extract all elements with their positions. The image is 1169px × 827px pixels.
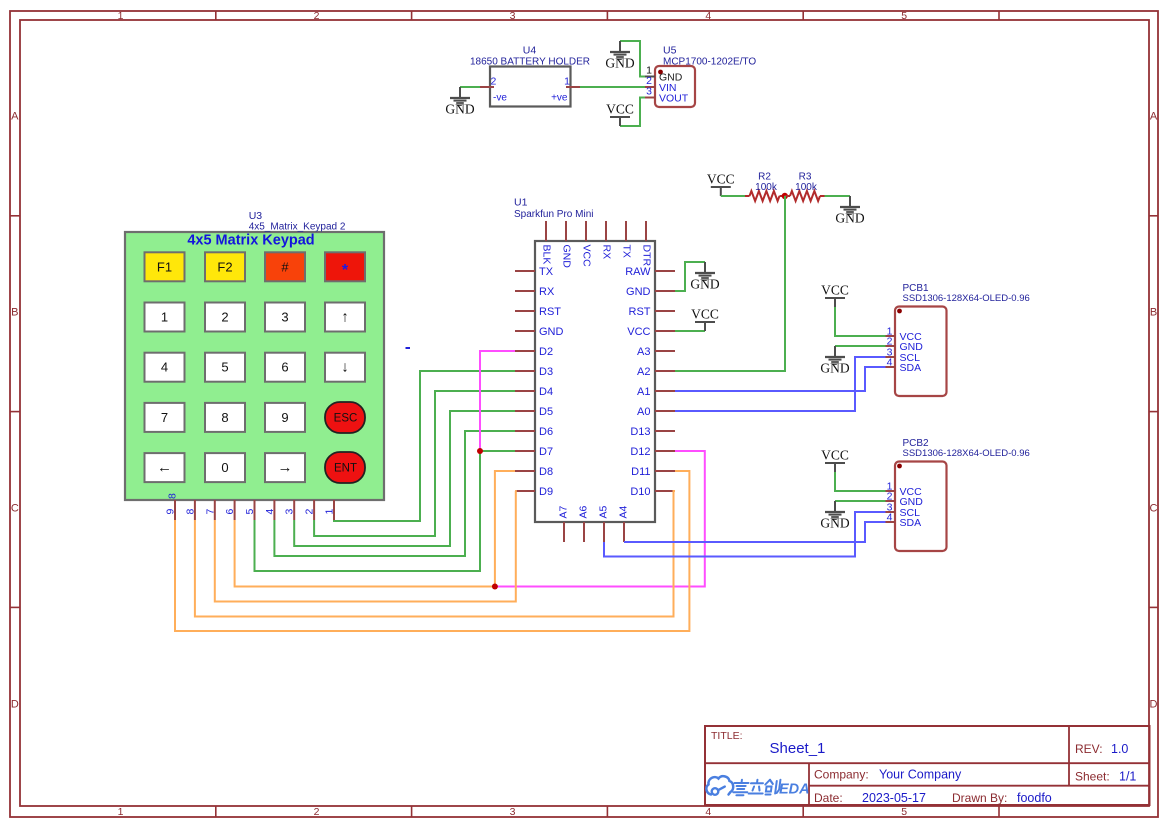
svg-text:2: 2 — [304, 509, 316, 515]
svg-text:GND: GND — [539, 326, 564, 338]
wire VCC to PCB1 pin1 — [835, 307, 886, 336]
svg-text:D4: D4 — [539, 386, 553, 398]
U1 right pin A0 — [655, 410, 675, 412]
U1 left pin D6 — [515, 430, 535, 432]
svg-text:5: 5 — [244, 509, 256, 515]
svg-text:GND: GND — [820, 516, 849, 531]
keypad pin 3 — [293, 500, 295, 520]
svg-text:MCP1700-1202E/TO: MCP1700-1202E/TO — [663, 57, 756, 68]
svg-text:9: 9 — [165, 509, 177, 515]
U1 left pin TX — [515, 270, 535, 272]
OLED PCB2 SSD1306 body — [895, 438, 1030, 551]
U1 left pin RX — [515, 290, 535, 292]
svg-text:4: 4 — [264, 509, 276, 515]
keypad button left-arrow — [145, 453, 185, 482]
svg-text:ESC: ESC — [334, 413, 358, 425]
svg-text:A1: A1 — [637, 386, 650, 398]
U1 bottom pin A6 — [583, 522, 585, 542]
ground GND (U5) — [605, 41, 634, 71]
svg-text:DTR: DTR — [640, 245, 652, 267]
U1 top pin GND — [565, 221, 567, 241]
svg-text:Sheet:: Sheet: — [1075, 770, 1110, 784]
svg-text:D7: D7 — [539, 446, 553, 458]
svg-text:GND: GND — [605, 56, 634, 71]
svg-text:4x5_Matrix_Keypad 2: 4x5_Matrix_Keypad 2 — [249, 221, 346, 232]
U1 top pin BLK — [545, 221, 547, 241]
svg-text:4: 4 — [705, 806, 711, 818]
OLED PCB1 SSD1306 body — [895, 283, 1030, 396]
keypad pin 8 — [194, 500, 196, 520]
svg-text:VCC: VCC — [606, 102, 634, 117]
ground GND (U4) — [445, 87, 474, 117]
keypad pin 6 — [234, 500, 236, 520]
wire U5 GND to ground — [620, 41, 645, 77]
net label dash near D2 wire — [406, 347, 411, 349]
battery holder U4 body — [470, 45, 590, 107]
wire keypad pin3 to U1 D5 (green) — [294, 411, 515, 546]
U1 top pin TX — [625, 221, 627, 241]
svg-text:VCC: VCC — [821, 283, 849, 298]
U1 right pin A3 — [655, 350, 675, 352]
svg-text:U1: U1 — [514, 197, 528, 209]
wire U5 VOUT to VCC — [620, 98, 645, 127]
svg-text:18650 BATTERY HOLDER: 18650 BATTERY HOLDER — [470, 57, 590, 68]
resistor R2 — [745, 191, 785, 201]
svg-text:Company:: Company: — [814, 768, 869, 782]
svg-text:D6: D6 — [539, 426, 553, 438]
wire keypad pin5 to node A (green) — [255, 451, 481, 571]
wire node A to U1 D7 (green) — [480, 450, 515, 452]
keypad button ESC — [325, 402, 365, 433]
U1 top pin VCC — [585, 221, 587, 241]
keypad button 1 — [145, 303, 185, 332]
svg-text:3: 3 — [284, 509, 296, 515]
keypad button F1 — [145, 252, 185, 281]
svg-text:SDA: SDA — [900, 362, 922, 374]
svg-text:U3: U3 — [249, 210, 263, 222]
wire U1 A4 to PCB2 SDA (blue) — [624, 522, 886, 542]
power VCC (PCB2) — [821, 448, 849, 473]
U1 right pin GND — [655, 290, 675, 292]
U1 bottom pin A4 — [623, 522, 625, 542]
svg-text:GND: GND — [560, 245, 572, 269]
keypad button right-arrow — [265, 453, 305, 482]
keypad button 7 — [145, 403, 185, 432]
keypad button 9 — [265, 403, 305, 432]
svg-text:A0: A0 — [637, 406, 650, 418]
svg-text:7: 7 — [161, 410, 168, 425]
svg-text:7: 7 — [204, 509, 216, 515]
EDA logo chinese characters — [733, 780, 781, 796]
svg-text:VCC: VCC — [707, 172, 735, 187]
svg-text:D: D — [11, 699, 19, 711]
svg-text:RX: RX — [539, 286, 555, 298]
svg-text:VCC: VCC — [627, 326, 650, 338]
svg-text:→: → — [278, 459, 293, 476]
U1 left pin GND — [515, 330, 535, 332]
U1 right pin D12 — [655, 450, 675, 452]
keypad button ENT — [325, 452, 365, 483]
svg-text:2: 2 — [221, 310, 228, 325]
svg-text:Sparkfun Pro Mini: Sparkfun Pro Mini — [514, 209, 593, 220]
U1 left pin D9 — [515, 490, 535, 492]
junction node B (D8/D12/keypad6) — [492, 584, 498, 590]
svg-text:TX: TX — [620, 245, 632, 258]
U1 left pin D5 — [515, 410, 535, 412]
svg-text:*: * — [342, 262, 349, 279]
wire U1 D9 to keypad pin7 (orange) — [215, 491, 516, 602]
U1 right pin A1 — [655, 390, 675, 392]
wire U1 A5 to PCB2 SCL (blue) — [604, 512, 886, 557]
svg-text:foodfo: foodfo — [1017, 791, 1052, 805]
PCB1 pin 1 VCC — [886, 335, 896, 337]
svg-text:RST: RST — [629, 306, 651, 318]
wire PCB2 pin2 to ground — [835, 500, 886, 502]
svg-text:D5: D5 — [539, 406, 553, 418]
svg-text:8: 8 — [221, 410, 228, 425]
svg-text:D2: D2 — [539, 346, 553, 358]
ground GND (PCB1) — [820, 346, 849, 376]
keypad button * — [325, 252, 365, 281]
wire VCC to R2 — [721, 195, 745, 197]
U4 pin 1 (+ve) — [566, 86, 580, 88]
keypad pin 9 — [174, 500, 176, 520]
svg-text:D13: D13 — [630, 426, 650, 438]
title block REV — [1075, 742, 1128, 756]
wire U1 A1 to PCB1 SDA (blue) — [675, 367, 886, 391]
wire R3 to ground — [825, 195, 851, 197]
svg-text:Sheet_1: Sheet_1 — [770, 740, 826, 757]
wire keypad pin4 to U1 D6 (green) — [274, 431, 515, 556]
svg-text:U4: U4 — [523, 45, 537, 57]
wire PCB1 pin2 to ground — [835, 345, 886, 347]
svg-text:1: 1 — [118, 806, 124, 818]
wire VCC to PCB2 pin1 — [835, 472, 886, 491]
svg-text:6: 6 — [224, 509, 236, 515]
svg-text:F1: F1 — [157, 259, 172, 274]
svg-text:VCC: VCC — [821, 448, 849, 463]
PCB2 pin 3 SCL — [886, 511, 896, 513]
svg-text:RAW: RAW — [625, 266, 651, 278]
U1 left pin D3 — [515, 370, 535, 372]
svg-text:2: 2 — [314, 10, 320, 22]
svg-text:RX: RX — [600, 245, 612, 260]
svg-text:9: 9 — [281, 410, 288, 425]
U1 right pin A2 — [655, 370, 675, 372]
title block Company — [814, 768, 962, 782]
U1 left pin RST — [515, 310, 535, 312]
svg-text:A2: A2 — [637, 366, 650, 378]
svg-text:D8: D8 — [539, 466, 553, 478]
keypad pin 2 — [313, 500, 315, 520]
PCB1 pin-1 marker dot — [897, 309, 902, 314]
svg-text:B: B — [1150, 307, 1157, 319]
svg-text:C: C — [1150, 503, 1158, 515]
svg-text:3: 3 — [646, 86, 652, 98]
svg-text:↓: ↓ — [341, 359, 349, 376]
svg-text:TITLE:: TITLE: — [711, 730, 743, 742]
keypad U3 4x5_Matrix_Keypad body — [125, 210, 384, 500]
svg-text:A6: A6 — [578, 505, 590, 518]
svg-text:100k: 100k — [795, 182, 818, 193]
PCB1 pin 3 SCL — [886, 356, 896, 358]
svg-text:3: 3 — [281, 310, 288, 325]
svg-text:U5: U5 — [663, 45, 677, 57]
PCB2 pin 1 VCC — [886, 490, 896, 492]
PCB1 pin 2 GND — [886, 345, 896, 347]
U4 pin 2 (-ve) — [480, 86, 494, 88]
svg-text:2: 2 — [491, 76, 497, 88]
svg-text:D3: D3 — [539, 366, 553, 378]
svg-text:Drawn By:: Drawn By: — [952, 791, 1007, 805]
power VCC (R2) — [707, 172, 735, 197]
title block Sheet number — [1075, 770, 1136, 784]
svg-text:GND: GND — [835, 211, 864, 226]
svg-text:1: 1 — [564, 76, 570, 88]
svg-text:A: A — [11, 111, 19, 123]
wire divider junction to U1 A2 — [675, 196, 785, 371]
U1 right pin VCC — [655, 330, 675, 332]
svg-text:D: D — [1150, 699, 1158, 711]
keypad button up-arrow — [325, 303, 365, 332]
U1 left pin D7 — [515, 450, 535, 452]
svg-text:↑: ↑ — [341, 309, 349, 326]
U1 right pin RST — [655, 310, 675, 312]
svg-text:GND: GND — [445, 102, 474, 117]
svg-text:VCC: VCC — [691, 307, 719, 322]
svg-text:SDA: SDA — [900, 517, 922, 529]
keypad button 3 — [265, 303, 305, 332]
svg-text:B: B — [11, 307, 18, 319]
wire keypad pin2 to U1 D4 (green) — [314, 391, 515, 536]
svg-text:D11: D11 — [631, 466, 650, 478]
keypad button # — [265, 252, 305, 281]
svg-text:BLK: BLK — [540, 245, 552, 265]
wire U4 +ve to U5 VIN — [580, 86, 645, 88]
U1 bottom pin A5 — [603, 522, 605, 542]
svg-text:4: 4 — [887, 512, 893, 524]
junction node A (D2/D7/keypad5) — [477, 448, 483, 454]
microcontroller U1 Sparkfun Pro Mini body — [514, 197, 655, 523]
regulator U5 MCP1700-1202E/TO body — [655, 45, 756, 108]
U1 top pin RX — [605, 221, 607, 241]
svg-text:8: 8 — [167, 493, 179, 499]
title block Drawn By — [952, 791, 1052, 805]
svg-text:D9: D9 — [539, 486, 553, 498]
svg-text:←: ← — [157, 459, 172, 476]
svg-text:Your Company: Your Company — [879, 768, 962, 782]
svg-text:4: 4 — [887, 357, 893, 369]
svg-text:-ve: -ve — [493, 93, 507, 104]
PCB2 pin 2 GND — [886, 500, 896, 502]
power VCC (U1) — [691, 307, 719, 332]
ground GND (PCB2) — [820, 501, 849, 531]
keypad pin 5 — [254, 500, 256, 520]
svg-text:5: 5 — [901, 10, 907, 22]
PCB2 pin-1 marker dot — [897, 464, 902, 469]
svg-text:5: 5 — [901, 806, 907, 818]
keypad pin 4 — [273, 500, 275, 520]
U1 right pin D13 — [655, 430, 675, 432]
svg-text:Date:: Date: — [814, 791, 843, 805]
ground GND (U1) — [690, 262, 719, 292]
U1 right pin D10 — [655, 490, 675, 492]
U5 pin 2 VIN — [645, 86, 655, 88]
wire keypad pin6 to node B (orange) — [235, 520, 495, 587]
keypad button 8 — [205, 403, 245, 432]
svg-text:A: A — [1150, 111, 1158, 123]
keypad button 5 — [205, 353, 245, 382]
svg-text:4: 4 — [161, 360, 168, 375]
PCB1 pin 4 SDA — [886, 366, 896, 368]
svg-text:8: 8 — [184, 509, 196, 515]
svg-text:1.0: 1.0 — [1111, 742, 1128, 756]
keypad button F2 — [205, 252, 245, 281]
title block Date — [814, 791, 926, 805]
power VCC (U5 output) — [606, 102, 634, 127]
svg-text:1: 1 — [324, 509, 336, 515]
keypad button 6 — [265, 353, 305, 382]
svg-text:GND: GND — [820, 361, 849, 376]
wire U1 A0 to PCB1 SCL (blue) — [675, 357, 886, 411]
svg-text:EDA: EDA — [779, 782, 810, 798]
U5 pin 1 GND — [645, 76, 655, 78]
junction node R2-R3 — [782, 193, 788, 199]
wire node B to U1 D8 (orange) — [495, 471, 515, 587]
svg-text:SSD1306-128X64-OLED-0.96: SSD1306-128X64-OLED-0.96 — [903, 448, 1030, 459]
svg-text:REV:: REV: — [1075, 742, 1103, 756]
svg-text:4x5 Matrix Keypad: 4x5 Matrix Keypad — [187, 233, 314, 249]
svg-text:A4: A4 — [618, 505, 630, 518]
svg-text:5: 5 — [221, 360, 228, 375]
EDA logo cloud icon — [706, 776, 733, 795]
svg-text:D12: D12 — [630, 446, 650, 458]
U1 left pin D8 — [515, 470, 535, 472]
svg-text:100k: 100k — [755, 182, 778, 193]
wire U1 VCC(right) to VCC — [675, 330, 705, 332]
U5 pin 3 VOUT — [645, 97, 655, 99]
svg-text:VCC: VCC — [580, 245, 592, 268]
title block — [705, 726, 1150, 805]
svg-text:#: # — [281, 259, 289, 274]
wire U4 -ve to ground — [460, 86, 480, 88]
wire U1 D2 to node A (magenta) — [480, 351, 515, 451]
svg-text:A3: A3 — [637, 346, 650, 358]
U1 left pin D2 — [515, 350, 535, 352]
svg-text:GND: GND — [690, 277, 719, 292]
resistor R3 — [785, 191, 825, 201]
svg-text:4: 4 — [705, 10, 711, 22]
U1 right pin D11 — [655, 470, 675, 472]
wire U1 D11 to keypad pin9 (orange) — [175, 471, 689, 631]
U1 left pin D4 — [515, 390, 535, 392]
keypad button 0 — [205, 453, 245, 482]
svg-text:0: 0 — [221, 460, 228, 475]
keypad button 4 — [145, 353, 185, 382]
keypad button 2 — [205, 303, 245, 332]
svg-text:2: 2 — [314, 806, 320, 818]
wire U1 D12 to node B (magenta) — [495, 451, 705, 587]
svg-text:GND: GND — [626, 286, 651, 298]
svg-text:3: 3 — [510, 10, 516, 22]
svg-text:+ve: +ve — [551, 93, 568, 104]
U1 right pin RAW — [655, 270, 675, 272]
svg-text:TX: TX — [539, 266, 554, 278]
svg-text:1: 1 — [118, 10, 124, 22]
U1 top pin DTR — [645, 221, 647, 241]
svg-text:3: 3 — [510, 806, 516, 818]
svg-text:6: 6 — [281, 360, 288, 375]
keypad pin 1 — [333, 500, 335, 520]
svg-text:SSD1306-128X64-OLED-0.96: SSD1306-128X64-OLED-0.96 — [903, 293, 1030, 304]
wire U1 D10 to keypad pin8 (orange) — [195, 491, 675, 617]
svg-text:A5: A5 — [598, 505, 610, 518]
svg-text:C: C — [11, 503, 19, 515]
svg-text:VOUT: VOUT — [659, 93, 689, 105]
keypad pin 7 — [214, 500, 216, 520]
svg-text:1/1: 1/1 — [1119, 770, 1136, 784]
power VCC (PCB1) — [821, 283, 849, 308]
svg-text:RST: RST — [539, 306, 561, 318]
svg-text:ENT: ENT — [334, 463, 357, 475]
PCB2 pin 4 SDA — [886, 521, 896, 523]
svg-text:1: 1 — [161, 310, 168, 325]
svg-text:D10: D10 — [630, 486, 650, 498]
wire U1 GND(right) to ground — [675, 262, 705, 291]
U5 pin-1 marker dot — [658, 70, 663, 75]
wire keypad pin1 to U1 D3 (green) — [334, 371, 515, 521]
svg-text:A7: A7 — [558, 505, 570, 518]
svg-text:F2: F2 — [217, 259, 232, 274]
keypad button down-arrow — [325, 353, 365, 382]
U1 bottom pin A7 — [563, 522, 565, 542]
ground GND (R3) — [835, 196, 864, 226]
svg-text:2023-05-17: 2023-05-17 — [862, 791, 926, 805]
